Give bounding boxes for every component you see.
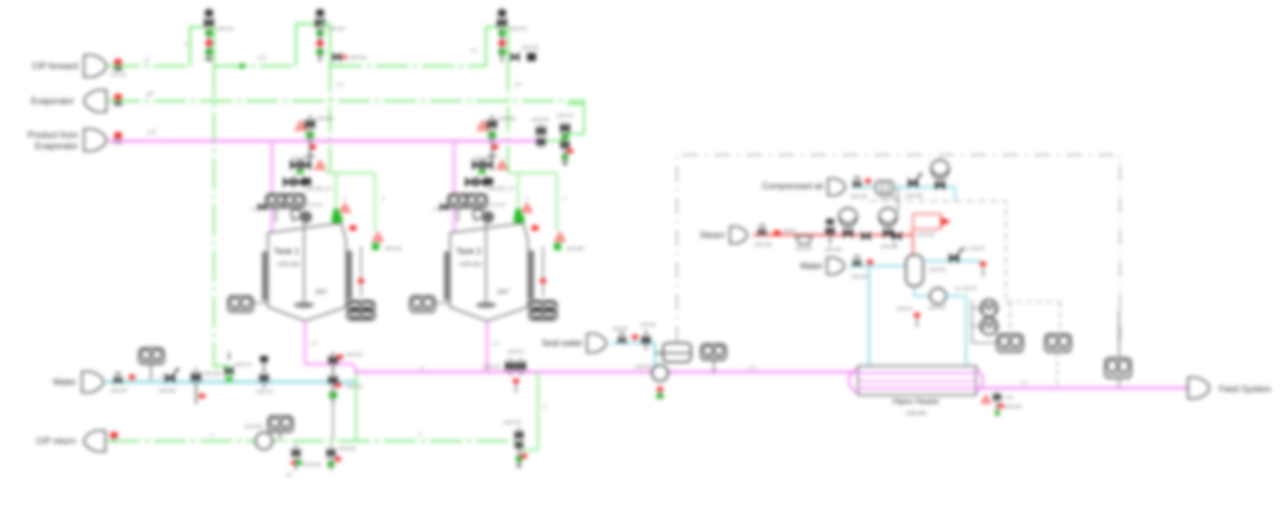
svg-text:1200-069: 1200-069 [203, 371, 221, 376]
CIP block valve stack LV-1 [208, 8, 210, 62]
pipe product main [354, 371, 858, 374]
svg-text:1.5″: 1.5″ [1020, 380, 1028, 385]
pipe product riser tank2 [453, 141, 455, 234]
svg-text:2″: 2″ [209, 433, 215, 438]
svg-text:1200-058: 1200-058 [824, 247, 842, 252]
svg-text:2″: 2″ [417, 432, 423, 437]
tank Tank 2 red actuator [531, 225, 539, 231]
tank Tank 2 side bar right [529, 250, 534, 300]
pipe CIP vertical drop to water line [213, 66, 215, 368]
CIP return instrument [279, 432, 281, 441]
svg-text:2″: 2″ [159, 374, 165, 379]
instrument stub lines [972, 300, 997, 343]
utility boundary box [677, 155, 1120, 380]
flow arrow CIP header [240, 63, 248, 69]
water control valve [166, 374, 175, 383]
svg-text:TI: TI [893, 242, 897, 247]
svg-text:Tank 1: Tank 1 [274, 246, 300, 256]
tank Tank 2 CIP valve green [514, 214, 525, 225]
tank Tank 2 top valve stack [491, 115, 493, 160]
svg-text:1200-074: 1200-074 [507, 349, 525, 354]
instrument pair D [1045, 334, 1071, 352]
CIP block valve stack LV-2 [319, 8, 321, 62]
svg-text:HV: HV [286, 472, 292, 477]
tank Tank 2 instruments bottom right [529, 301, 557, 311]
svg-text:1200-054: 1200-054 [879, 195, 897, 200]
air red dot [865, 178, 871, 183]
svg-text:2″: 2″ [143, 58, 150, 64]
heater tubes [858, 372, 976, 374]
circulation pump [930, 288, 946, 304]
tank Tank 1 inlet piping cluster triangle [296, 121, 307, 130]
svg-text:CIP forward: CIP forward [32, 61, 78, 71]
svg-text:1200-043: 1200-043 [349, 55, 367, 60]
instrument M-circle B [981, 318, 998, 335]
pipe steam to vessel [912, 235, 914, 256]
svg-text:1200-070: 1200-070 [234, 362, 252, 367]
air valve 1 [854, 181, 861, 188]
svg-text:1200-072: 1200-072 [345, 352, 363, 357]
inlet flag Evaporator [84, 90, 106, 112]
air line to diaphragm [897, 188, 899, 212]
svg-text:1200-064: 1200-064 [489, 203, 505, 207]
svg-text:1200-045: 1200-045 [521, 45, 539, 50]
tank Tank 2 top instruments [457, 207, 459, 222]
tank Tank 1 relief triangle [340, 204, 350, 213]
svg-text:1″: 1″ [563, 196, 567, 201]
pipe CIP header segment 3 [330, 65, 486, 68]
svg-text:1200-048: 1200-048 [244, 424, 262, 429]
svg-text:1200-06: 1200-06 [897, 306, 913, 311]
svg-text:1200-067: 1200-067 [110, 388, 128, 393]
steam strainer [796, 236, 812, 244]
pump discharge instrument [713, 360, 715, 373]
svg-text:Water: Water [53, 377, 76, 387]
signal dash to C and D [1006, 302, 1060, 334]
tank Tank 1 vent valve green [372, 243, 379, 250]
pipe CIP riser 3 [486, 27, 497, 66]
svg-text:1200-055: 1200-055 [905, 193, 923, 198]
svg-text:1200-062: 1200-062 [473, 156, 491, 161]
svg-text:2″: 2″ [184, 42, 188, 47]
svg-text:Seal water: Seal water [541, 338, 583, 348]
svg-text:1″: 1″ [525, 196, 529, 201]
heater outlet stub [976, 387, 990, 390]
CIP block valve stack LV-3 [501, 8, 503, 62]
tank Tank 1 top instruments [275, 207, 277, 222]
inlet flag Water [82, 372, 103, 393]
mixing vessel [906, 255, 923, 286]
pipe compressed air [852, 186, 955, 189]
svg-text:1200-041: 1200-041 [216, 26, 234, 31]
tank Tank 2 valve row 3 [466, 178, 475, 187]
pipe water line [106, 380, 358, 383]
svg-text:1200-047: 1200-047 [556, 113, 574, 118]
valve on CIP forward inlet [114, 59, 122, 66]
tank Tank 2 vent triangle right [555, 233, 565, 242]
svg-text:1200-061: 1200-061 [459, 262, 482, 268]
pipe CIP drop from valve 1 [209, 27, 214, 66]
tank Tank 1 level instrument left [253, 302, 268, 304]
CIP return end valve [518, 428, 520, 468]
heater shell [849, 368, 983, 393]
inlet flag Steam [730, 227, 747, 244]
svg-text:1200-053: 1200-053 [850, 194, 868, 199]
pipe CIP drop from valve 3 [502, 27, 508, 66]
product end valve A [540, 124, 542, 148]
svg-text:Water: Water [800, 261, 823, 271]
seal pot [663, 343, 691, 362]
tank Tank 2 inlet piping cluster triangle [478, 121, 489, 130]
svg-text:Compressed air: Compressed air [762, 181, 824, 191]
outlet control valve [950, 254, 959, 263]
svg-text:1200-063, 1.5″: 1200-063, 1.5″ [487, 186, 515, 191]
tank Tank 1 vent triangle right [373, 233, 383, 242]
svg-text:1200-062: 1200-062 [928, 267, 946, 272]
tank Tank 1 green tick on shoulder [323, 230, 330, 237]
pipe CIP vertical into tank2 cluster [507, 66, 509, 173]
svg-text:1200-052: 1200-052 [905, 411, 926, 417]
pipe green drop to CIP return [355, 372, 357, 441]
inlet flag Product from Evaporator [84, 129, 106, 151]
svg-text:1200-049: 1200-049 [303, 462, 321, 467]
water line valve 3 [263, 356, 265, 388]
svg-text:Steam: Steam [700, 230, 725, 240]
pump suction drain [914, 312, 921, 317]
tank Tank 1 valve row 3 [284, 178, 293, 187]
svg-text:1200-068: 1200-068 [158, 388, 176, 393]
pipe CIP return [108, 440, 516, 443]
steam valve 1 [759, 229, 766, 236]
pipe pump to heater [946, 296, 966, 369]
pipe CIP riser 2 [296, 24, 315, 66]
svg-text:Evaporator: Evaporator [31, 96, 74, 106]
air filter [876, 181, 893, 194]
utility water red dot [867, 259, 874, 264]
tank Tank 1 agitator motor [291, 209, 301, 219]
svg-text:1200-063: 1200-063 [928, 305, 946, 310]
svg-text:1200: 1200 [251, 207, 259, 211]
steam red diamond [773, 230, 781, 236]
product end valve B [564, 122, 566, 166]
water line valve 2 [195, 368, 197, 404]
inlet flag Compressed air [828, 179, 845, 196]
pipe CIP forward header [108, 65, 190, 68]
product pump [652, 365, 668, 381]
svg-text:1200-051: 1200-051 [316, 116, 334, 121]
svg-text:Evaporator: Evaporator [35, 141, 78, 151]
valve on Product inlet [114, 132, 122, 139]
svg-text:Hipex Heater: Hipex Heater [893, 397, 940, 406]
pipe to feed system [983, 387, 1188, 390]
tank Tank 2 side bar left [444, 251, 449, 301]
small valve after LV-3 [511, 53, 519, 61]
svg-text:1200-051: 1200-051 [277, 262, 300, 268]
svg-text:1.5″: 1.5″ [310, 341, 318, 346]
water inlet valve [114, 376, 121, 383]
pipe CIP drop from valve 2 [320, 24, 330, 66]
tank Tank 2 relief triangle [522, 204, 532, 213]
tank Tank 2 CIP spray loop [325, 172, 327, 174]
svg-text:1200-073: 1200-073 [345, 384, 363, 389]
svg-text:1200-056: 1200-056 [754, 242, 772, 247]
tank Tank 1 side bar left [262, 251, 267, 301]
pipe product header [108, 140, 543, 143]
pipe vessel outlet [923, 260, 981, 263]
steam valve stack [829, 221, 831, 244]
svg-text:1200-054: 1200-054 [307, 203, 323, 207]
pipe Evaporator CIP line [108, 100, 586, 103]
svg-text:Feed System: Feed System [1219, 384, 1271, 394]
svg-text:1200-052: 1200-052 [291, 156, 309, 161]
instrument M-circle A [981, 300, 998, 317]
pipe tank1 outlet [305, 321, 356, 372]
inlet flag CIP forward [84, 55, 106, 77]
svg-text:2m³: 2m³ [496, 289, 510, 296]
product pump drain [657, 386, 664, 391]
svg-text:Product from: Product from [28, 130, 78, 140]
svg-text:1″: 1″ [543, 404, 548, 409]
tank Tank 1 valve row 2 [291, 161, 300, 170]
svg-text:1200-040: 1200-040 [110, 72, 128, 77]
svg-text:1200-061: 1200-061 [498, 116, 516, 121]
heater tube box [858, 366, 976, 395]
svg-text:1″: 1″ [381, 196, 385, 201]
svg-text:1.5″: 1.5″ [514, 82, 522, 87]
svg-text:1.5″: 1.5″ [492, 341, 500, 346]
svg-text:2m³: 2m³ [314, 289, 328, 296]
instrument pair C [997, 334, 1023, 352]
svg-text:1200-046: 1200-046 [531, 117, 549, 122]
tank Tank 1 red actuator [349, 225, 357, 231]
signal dash line [870, 201, 1006, 298]
svg-text:1200-075: 1200-075 [482, 364, 500, 369]
air diaphragm valve [931, 160, 949, 178]
small valve after LV-2 [333, 53, 341, 61]
svg-text:SC 1200-07: SC 1200-07 [955, 286, 978, 291]
tank Tank 2 agitator motor [473, 209, 483, 219]
svg-text:1.5″: 1.5″ [257, 56, 268, 62]
pipe tank2 outlet [486, 321, 488, 372]
pipe CIP vertical into tank1 cluster [329, 66, 331, 173]
svg-text:1200-057: 1200-057 [795, 246, 813, 251]
pipe CIP riser 1 [190, 27, 203, 66]
seal water valve 1 [619, 337, 626, 344]
tank Tank 1 CIP valve green [332, 214, 343, 225]
air control valve [909, 179, 918, 188]
pipe steam [753, 234, 913, 237]
pipe CIP header segment 2 [214, 65, 296, 68]
outlet red dot [980, 261, 987, 266]
instrument D dash stem [1056, 352, 1058, 388]
svg-text:Tank 2: Tank 2 [456, 246, 482, 256]
water instrument [150, 362, 152, 380]
seal water red dot [632, 334, 639, 339]
product main valve pair [509, 358, 511, 375]
steam diaphragm 2 [879, 208, 897, 226]
svg-text:2″: 2″ [419, 365, 425, 370]
svg-text:1200-051: 1200-051 [634, 364, 652, 369]
CIP return pump [256, 433, 273, 450]
valve CIP-water junction [228, 352, 230, 360]
tank Tank 1 drain line right [360, 246, 362, 296]
svg-text:3-HE: 3-HE [1004, 395, 1014, 400]
inlet flag Seal water [587, 334, 606, 353]
pipe green link A-B [543, 140, 565, 142]
pipe CIP drop join water [214, 366, 229, 383]
svg-text:SC 1200-07: SC 1200-07 [963, 246, 986, 251]
after-heater drain [982, 395, 991, 403]
outlet flag Feed System [1188, 378, 1209, 399]
svg-text:1.5″: 1.5″ [336, 82, 344, 87]
svg-text:1200-064: 1200-064 [1004, 404, 1022, 409]
tank Tank 1 instruments bottom right [347, 301, 375, 311]
tank Tank 2 level instrument left [435, 302, 450, 304]
tank Tank 1 body [268, 223, 346, 321]
CIP return drain valve 2 [330, 445, 332, 470]
tank Tank 1 side bar right [347, 250, 352, 300]
desuperheater [912, 228, 914, 235]
seal water valve 2 [645, 330, 647, 350]
svg-text:1200-055: 1200-055 [384, 246, 402, 251]
pipe hot water drop 1 [868, 266, 871, 369]
CIP return drain valve 1 [295, 445, 297, 470]
tank Tank 2 vent valve green [554, 243, 561, 250]
tank Tank 2 body [450, 223, 528, 321]
inlet flag Utility water [827, 258, 844, 275]
pipe vessel to pump [914, 287, 930, 296]
pipe green loop from evap line [565, 104, 584, 134]
valve on Evaporator inlet [114, 94, 122, 101]
pipe crossover to CIP return [332, 404, 334, 441]
svg-text:1.5″: 1.5″ [748, 365, 756, 370]
utility water valve [854, 260, 861, 267]
tank Tank 2 valve row 2 [473, 161, 482, 170]
svg-text:1200-071: 1200-071 [256, 389, 274, 394]
tank Tank 2 green tick on shoulder [505, 230, 512, 237]
svg-text:1.5″: 1.5″ [470, 48, 478, 53]
valve on CIP return inlet [110, 432, 118, 439]
svg-text:1200-06: 1200-06 [612, 326, 628, 331]
steam diaphragm 1 [839, 208, 857, 226]
svg-text:1200-065: 1200-065 [566, 246, 584, 251]
instrument E [1105, 358, 1131, 378]
steam valve end [893, 232, 901, 240]
pipe product riser tank1 [271, 141, 273, 234]
tank Tank 1 top valve stack [309, 115, 311, 160]
pipe air drop [954, 186, 956, 201]
svg-text:CIP return: CIP return [36, 436, 76, 446]
tank Tank 2 agitator shaft [485, 222, 487, 303]
tank Tank 1 CIP spray loop [325, 0, 327, 1]
pipe utility water [849, 265, 906, 268]
svg-text:1.5″: 1.5″ [147, 130, 158, 136]
svg-text:1″: 1″ [343, 196, 347, 201]
tank Tank 1 agitator shaft [303, 222, 305, 303]
svg-text:1200-061: 1200-061 [851, 274, 869, 279]
crossover valve stack [332, 352, 334, 404]
svg-text:1200-06: 1200-06 [640, 322, 656, 327]
svg-text:1200-044: 1200-044 [509, 26, 527, 31]
svg-text:1200-050: 1200-050 [338, 446, 356, 451]
inlet flag CIP return [84, 431, 105, 452]
svg-text:1200: 1200 [433, 207, 441, 211]
tank Tank 2 drain line right [542, 246, 544, 296]
svg-text:1200-060: 1200-060 [917, 232, 935, 237]
svg-text:1200-053, 1.5″: 1200-053, 1.5″ [305, 186, 333, 191]
heater inlet stub [840, 372, 858, 373]
svg-text:10″: 10″ [146, 92, 155, 98]
pipe seal water [611, 343, 655, 368]
svg-text:Steam: Steam [783, 228, 796, 233]
pipe green CIP end drop [521, 372, 538, 450]
svg-text:1200-079: 1200-079 [503, 420, 521, 425]
